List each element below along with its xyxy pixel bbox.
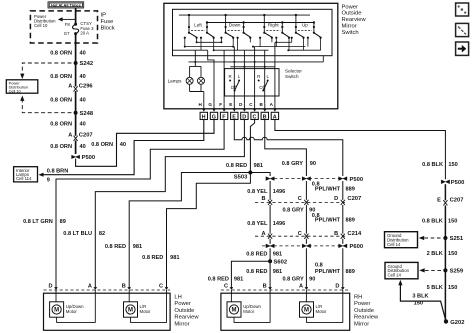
svg-text:Mirror: Mirror bbox=[174, 321, 189, 327]
svg-text:LH: LH bbox=[174, 295, 181, 301]
wire: 0.8 YEL 1496 C207 to C214 A bbox=[269, 205, 271, 234]
svg-text:C207: C207 bbox=[347, 196, 361, 202]
wire: 0.8 PPL/WHT 889 C207 to C214 B bbox=[342, 205, 344, 234]
connector P500 terminal (GRY wire) bbox=[302, 177, 310, 181]
battery feed label: Hot At All Times box bbox=[48, 2, 84, 8]
svg-text:0.8 ORN: 0.8 ORN bbox=[91, 142, 113, 148]
svg-text:981: 981 bbox=[273, 269, 282, 275]
connector P500 terminal (PPL/WHT wire) bbox=[339, 177, 347, 181]
wire: switch feed bus lower bbox=[207, 22, 314, 24]
svg-text:0.8 ORN: 0.8 ORN bbox=[50, 74, 72, 80]
viewer button 1 bbox=[456, 3, 469, 16]
connector C204 cavity F bbox=[220, 112, 227, 120]
svg-text:P500: P500 bbox=[82, 155, 96, 161]
connector C204 cavity G bbox=[210, 112, 217, 120]
svg-text:0.8 YEL: 0.8 YEL bbox=[247, 189, 268, 195]
svg-text:Cell 10: Cell 10 bbox=[34, 23, 48, 28]
svg-text:981: 981 bbox=[133, 244, 142, 250]
switch contact set: Up bbox=[291, 14, 322, 39]
connector P500 terminal (RED/YEL wire) bbox=[266, 177, 274, 181]
switch pin H bbox=[198, 102, 205, 112]
wire: switch internal to pin C bbox=[254, 47, 256, 104]
svg-text:0.8 RED: 0.8 RED bbox=[246, 269, 267, 275]
svg-text:Switch: Switch bbox=[342, 30, 359, 36]
viewer button 2 bbox=[456, 23, 469, 36]
viewer button 3 (arrow) bbox=[456, 42, 469, 55]
svg-text:C: C bbox=[159, 284, 163, 290]
wire: 0.8 ORN 40 S242 to C296 bbox=[75, 63, 77, 87]
svg-text:C: C bbox=[298, 196, 302, 202]
svg-text:889: 889 bbox=[346, 269, 355, 275]
wire: switch internal to pin B bbox=[264, 50, 266, 103]
svg-text:A: A bbox=[68, 83, 72, 89]
mirror pin B bbox=[122, 284, 131, 291]
lamp L2 (illumination) bbox=[198, 77, 205, 84]
svg-text:40: 40 bbox=[80, 122, 86, 128]
svg-text:B: B bbox=[261, 196, 265, 202]
wire: 0.8 GRY 90 switch B to RH mirror A bbox=[265, 120, 307, 177]
svg-text:F: F bbox=[219, 102, 222, 107]
connector C204 cavity C bbox=[251, 112, 258, 120]
svg-text:Switch: Switch bbox=[285, 74, 299, 79]
svg-text:Off: Off bbox=[231, 85, 238, 90]
svg-text:0.8 BLK: 0.8 BLK bbox=[422, 162, 443, 168]
svg-text:0.8 ORN: 0.8 ORN bbox=[50, 144, 72, 150]
svg-text:150: 150 bbox=[448, 162, 457, 168]
switch contact set: Left bbox=[184, 14, 215, 39]
Ground Distribution Cell 14 box (lower) bbox=[385, 262, 418, 278]
wire: switch internal distribution bus B bbox=[230, 66, 275, 68]
wire: lamp return to pin H bbox=[190, 84, 204, 103]
connector C204 cavity B bbox=[261, 112, 268, 120]
svg-text:B: B bbox=[263, 284, 267, 290]
svg-text:150: 150 bbox=[448, 251, 457, 257]
wire: switch internal to pin E bbox=[233, 47, 235, 104]
svg-text:0.8 RED: 0.8 RED bbox=[246, 252, 267, 258]
wire: switch internal to pin A bbox=[274, 42, 276, 103]
svg-text:89: 89 bbox=[60, 219, 66, 225]
wire: 0.8 BLK 150 C207 to S251 bbox=[444, 205, 446, 238]
wire: 0.8 LT BLU 82 switch D to LH mirror A bbox=[95, 120, 244, 288]
selector contacts group 2 bbox=[257, 74, 269, 92]
connector C204 cavity E bbox=[231, 112, 238, 120]
svg-text:Lamps: Lamps bbox=[168, 79, 182, 84]
svg-text:Power: Power bbox=[354, 301, 371, 307]
splice S251 bbox=[443, 236, 447, 240]
wire: switch internal to pin F bbox=[223, 50, 225, 103]
wire: 0.8 ORN 40 C207 to P500 bbox=[75, 140, 77, 154]
wire: feed from Hot At All Times into fuse bbox=[75, 8, 77, 24]
mirror pin C bbox=[159, 284, 168, 291]
wire: 0.8 ORN 40 C296 to S248 bbox=[75, 91, 77, 113]
wire: 0.8 GRY 90 P500 to C207 C bbox=[305, 181, 307, 200]
svg-text:Cell 14: Cell 14 bbox=[387, 242, 401, 247]
dashed reference link S242 to Power Distribution cell bbox=[22, 63, 71, 74]
svg-text:D: D bbox=[334, 196, 338, 202]
dashed reference link S248 to Power Distribution cell bbox=[22, 101, 71, 113]
connector C204 cavity D bbox=[241, 112, 248, 120]
svg-text:RH: RH bbox=[354, 295, 362, 301]
svg-text:G7: G7 bbox=[64, 31, 70, 36]
wire: lamp feed from mesh bbox=[190, 50, 201, 77]
svg-text:Selector: Selector bbox=[285, 68, 302, 73]
svg-text:1496: 1496 bbox=[273, 221, 285, 227]
wire: 0.8 GRY 90 C207 to C214 C bbox=[305, 205, 307, 234]
splice S248 bbox=[74, 111, 78, 115]
svg-text:Outside: Outside bbox=[174, 308, 194, 314]
svg-text:S251: S251 bbox=[450, 236, 464, 242]
connector P600 dashed row bbox=[262, 245, 347, 247]
svg-text:0.8 RED: 0.8 RED bbox=[226, 163, 247, 169]
wire: 0.8 GRY 90 P600 to RH mirror A bbox=[305, 248, 307, 287]
svg-text:1496: 1496 bbox=[273, 189, 285, 195]
connector P500 (orange wire crossing) bbox=[72, 155, 80, 158]
svg-text:Rearview: Rearview bbox=[342, 17, 367, 23]
svg-text:S602: S602 bbox=[274, 260, 288, 266]
svg-text:P600: P600 bbox=[350, 244, 364, 250]
svg-text:S242: S242 bbox=[80, 61, 94, 67]
svg-text:40: 40 bbox=[80, 144, 86, 150]
svg-text:H: H bbox=[202, 114, 206, 120]
wire: 5 BLK 150 S259 to G202 bbox=[444, 270, 447, 321]
svg-text:0.8: 0.8 bbox=[315, 262, 323, 268]
svg-text:S248: S248 bbox=[80, 111, 94, 117]
svg-text:90: 90 bbox=[309, 277, 315, 283]
svg-text:889: 889 bbox=[346, 187, 355, 193]
svg-text:40: 40 bbox=[80, 97, 86, 103]
svg-text:2 BLK: 2 BLK bbox=[427, 251, 443, 257]
svg-text:981: 981 bbox=[254, 163, 263, 169]
wire: 0.8 ORN 40 S248 to C207 bbox=[75, 113, 77, 136]
svg-text:40: 40 bbox=[80, 51, 86, 57]
switch name label bbox=[342, 4, 367, 36]
wire: S503 right branch to RH mirror common bbox=[250, 173, 270, 177]
svg-text:0.8 BRN: 0.8 BRN bbox=[47, 168, 68, 174]
switch pin A bbox=[270, 102, 277, 112]
wire: switch internal distribution bus A bbox=[189, 56, 324, 62]
fuse element (S-curve) with terminals bbox=[74, 23, 77, 26]
wire: S503 left branch to LH mirror B bbox=[129, 173, 250, 288]
svg-text:A: A bbox=[299, 284, 303, 290]
svg-text:Up: Up bbox=[302, 23, 308, 28]
wire: 0.8 PPL/WHT 889 P500 to C207 D bbox=[342, 181, 344, 200]
svg-text:C296: C296 bbox=[79, 83, 94, 89]
connector P500 (mirror harness pass-through) dashed row bbox=[274, 178, 346, 180]
svg-text:D: D bbox=[49, 284, 53, 290]
LH Power mirror box bbox=[44, 293, 171, 330]
wire: 0.8 RED 981 switch C to S503 bbox=[250, 120, 254, 173]
svg-text:0.8 ORN: 0.8 ORN bbox=[50, 122, 72, 128]
svg-text:9: 9 bbox=[47, 178, 50, 184]
mirror pin C bbox=[224, 284, 233, 291]
wire: 0.8 YEL 1496 P500 to C207 B bbox=[269, 181, 271, 200]
svg-text:Left: Left bbox=[194, 23, 202, 28]
svg-text:D: D bbox=[335, 284, 339, 290]
wire: 2 BLK 150 S251 to S259 bbox=[444, 238, 446, 270]
svg-text:C: C bbox=[298, 231, 302, 237]
svg-text:981: 981 bbox=[273, 252, 282, 258]
IP Fuse Block dashed box bbox=[30, 11, 97, 43]
svg-text:Right: Right bbox=[268, 23, 279, 28]
svg-text:0.8 BLK: 0.8 BLK bbox=[422, 219, 443, 225]
connector C204 cavity A bbox=[271, 112, 278, 120]
svg-text:R: R bbox=[229, 74, 232, 79]
wire: 0.8 RED 981 S602 branch to RH mirror C bbox=[231, 261, 270, 287]
connector C207 dashed row bbox=[255, 201, 345, 203]
switch contact set: Right bbox=[259, 14, 290, 39]
svg-text:Cell 10: Cell 10 bbox=[9, 89, 22, 94]
svg-text:0.8 ORN: 0.8 ORN bbox=[50, 97, 72, 103]
mirror name label bbox=[354, 295, 379, 328]
svg-text:M: M bbox=[304, 308, 309, 314]
connector P500 terminal (BLK wire) bbox=[441, 180, 449, 184]
wire: 0.8 RED 981 P600 to S602 bbox=[269, 248, 271, 261]
wire: 3 BLK 150 ground distribution to G202 bbox=[400, 285, 446, 322]
svg-text:E: E bbox=[232, 114, 236, 120]
svg-text:Power: Power bbox=[174, 301, 191, 307]
svg-text:P500: P500 bbox=[350, 177, 364, 183]
connector P600 terminal (RED wire) bbox=[266, 244, 274, 248]
switch pin E bbox=[229, 102, 236, 112]
svg-text:Motor: Motor bbox=[243, 309, 255, 314]
svg-text:A: A bbox=[88, 284, 92, 290]
wire: mirror internal wiring bbox=[56, 290, 167, 323]
svg-text:G202: G202 bbox=[450, 320, 464, 326]
svg-text:0.8 LT GRN: 0.8 LT GRN bbox=[23, 219, 53, 225]
svg-text:M: M bbox=[128, 308, 133, 314]
svg-text:40: 40 bbox=[80, 74, 86, 80]
mirror pin A bbox=[299, 284, 308, 291]
svg-text:R: R bbox=[257, 74, 260, 79]
svg-text:0.8 RED: 0.8 RED bbox=[142, 255, 163, 261]
wire: 0.8 BRN 9 to switch pin H bbox=[43, 120, 204, 175]
mirror pin D bbox=[49, 284, 58, 291]
switch pin C bbox=[249, 102, 256, 112]
svg-text:S259: S259 bbox=[450, 269, 464, 275]
wire: 0.8 LT GRN 89 switch F to LH mirror D bbox=[56, 120, 224, 288]
wire: 0.8 BLK 150 P500 to C207 E bbox=[444, 184, 446, 200]
svg-text:0.8 RED: 0.8 RED bbox=[208, 277, 229, 283]
svg-text:Mirror: Mirror bbox=[342, 24, 357, 30]
splice S259 bbox=[443, 268, 447, 272]
splice S503 bbox=[248, 171, 252, 175]
arrow from interior lamps reference bbox=[39, 173, 44, 177]
svg-text:Fuse: Fuse bbox=[101, 19, 114, 25]
svg-text:82: 82 bbox=[99, 231, 105, 237]
svg-text:Mirror: Mirror bbox=[354, 321, 369, 327]
up/down motor LH bbox=[50, 302, 84, 317]
wire: 0.8 RED 981 S602 to RH mirror B bbox=[269, 261, 271, 287]
svg-text:C214: C214 bbox=[347, 231, 362, 237]
splice S602 bbox=[268, 259, 272, 263]
svg-text:Motor: Motor bbox=[66, 309, 78, 314]
wire: 0.8 PPL/WHT 889 P600 to RH mirror D bbox=[342, 248, 344, 287]
svg-text:150: 150 bbox=[448, 285, 457, 291]
selector switch box bbox=[225, 69, 279, 96]
dashed reference link S259 to Ground Distribution bbox=[425, 269, 443, 271]
svg-text:D: D bbox=[242, 114, 246, 120]
wire: switch feed bus upper bbox=[179, 14, 310, 16]
svg-text:981: 981 bbox=[170, 255, 179, 261]
svg-text:M: M bbox=[232, 308, 237, 314]
mirror connector dashed row bbox=[44, 289, 171, 291]
svg-text:A: A bbox=[261, 231, 265, 237]
svg-text:Motor: Motor bbox=[140, 309, 152, 314]
svg-text:PPL/WHT: PPL/WHT bbox=[315, 187, 341, 193]
ground G202 bbox=[444, 319, 448, 323]
wire: switch internal to pin G bbox=[208, 50, 214, 103]
mirror direction contact assembly inner box bbox=[173, 9, 333, 55]
svg-text:Cell 14: Cell 14 bbox=[388, 273, 402, 278]
up/down motor RH bbox=[227, 302, 261, 317]
svg-text:Motor: Motor bbox=[316, 309, 328, 314]
svg-text:F8: F8 bbox=[65, 22, 71, 27]
svg-text:IP: IP bbox=[101, 13, 107, 19]
svg-text:P500: P500 bbox=[451, 180, 465, 186]
connector P600 terminal (PPL/WHT wire) bbox=[339, 244, 347, 248]
svg-text:B: B bbox=[263, 114, 267, 120]
svg-text:Outside: Outside bbox=[354, 308, 374, 314]
wire: 0.8 BLK 150 switch A to right ground column bbox=[275, 120, 446, 180]
svg-text:A: A bbox=[273, 114, 277, 120]
switch pin G bbox=[208, 102, 215, 112]
svg-text:C: C bbox=[224, 284, 228, 290]
splice S242 bbox=[74, 61, 78, 65]
svg-text:A: A bbox=[68, 133, 72, 139]
svg-text:Rearview: Rearview bbox=[174, 315, 199, 321]
switch pin F bbox=[219, 102, 226, 112]
connector P600 terminal (GRY wire) bbox=[302, 244, 310, 248]
svg-text:0.8 RED: 0.8 RED bbox=[105, 244, 126, 250]
wire: S503 lower branch to LH mirror C bbox=[167, 173, 251, 288]
left/right motor LH bbox=[124, 302, 152, 317]
arrow to Power Distribution reference bbox=[62, 18, 76, 20]
svg-text:Hot At All Times: Hot At All Times bbox=[51, 3, 81, 8]
svg-text:20 A: 20 A bbox=[80, 31, 89, 36]
Ground Distribution Cell 14 box (upper) bbox=[385, 232, 418, 248]
svg-text:0.8 YEL: 0.8 YEL bbox=[247, 221, 268, 227]
switch contact set: Down bbox=[220, 14, 251, 39]
Power Distribution Cell 10 box (left) bbox=[6, 80, 38, 93]
op: Power Outside Rearview Mirror Switch outer box bbox=[164, 3, 338, 109]
svg-text:0.8 LT BLU: 0.8 LT BLU bbox=[63, 231, 92, 237]
mirror connector dashed row bbox=[221, 289, 350, 291]
svg-text:B: B bbox=[122, 284, 126, 290]
svg-text:Block: Block bbox=[101, 26, 115, 32]
svg-text:0.8 GRY: 0.8 GRY bbox=[282, 208, 304, 214]
svg-text:C: C bbox=[252, 114, 256, 120]
wire: switch internal to pin D bbox=[243, 50, 245, 103]
mirror pin D bbox=[335, 284, 344, 291]
svg-text:889: 889 bbox=[346, 218, 355, 224]
svg-text:Off: Off bbox=[259, 85, 266, 90]
switch pin D bbox=[239, 102, 246, 112]
svg-text:3 BLK: 3 BLK bbox=[412, 293, 428, 299]
svg-text:40: 40 bbox=[120, 142, 126, 148]
svg-text:5 BLK: 5 BLK bbox=[427, 285, 443, 291]
svg-text:0.8 ORN: 0.8 ORN bbox=[50, 51, 72, 57]
svg-text:Power: Power bbox=[342, 4, 359, 10]
wire: C214 to P600 (three wires) bbox=[270, 239, 343, 244]
mirror pin A bbox=[88, 284, 97, 291]
connector C204 cavity H bbox=[200, 112, 207, 120]
svg-text:M: M bbox=[54, 308, 59, 314]
wire: switch output mesh bbox=[173, 38, 321, 52]
svg-text:Outside: Outside bbox=[342, 11, 362, 17]
svg-text:PPL/WHT: PPL/WHT bbox=[315, 218, 341, 224]
svg-text:E: E bbox=[229, 102, 232, 107]
svg-text:G: G bbox=[212, 114, 216, 120]
svg-text:C207: C207 bbox=[79, 133, 93, 139]
selector contacts group 1 bbox=[229, 74, 241, 92]
connector C214 dashed row bbox=[255, 235, 345, 237]
svg-text:Down: Down bbox=[229, 23, 241, 28]
dashed reference link S251 to Ground Distribution bbox=[425, 237, 443, 239]
mirror name label bbox=[174, 295, 199, 328]
svg-text:G: G bbox=[208, 102, 212, 107]
svg-text:150: 150 bbox=[448, 219, 457, 225]
svg-text:150: 150 bbox=[414, 301, 423, 307]
wire: 0.8 PPL/WHT 889 switch E to RH mirror D (with crossover hops) bbox=[234, 120, 342, 177]
lamp L1 (illumination) bbox=[186, 77, 193, 84]
svg-text:Rearview: Rearview bbox=[354, 315, 379, 321]
svg-text:Cell 114: Cell 114 bbox=[16, 176, 32, 181]
svg-text:0.8 GRY: 0.8 GRY bbox=[282, 161, 304, 167]
wire: 0.8 ORN 40 P500 elbow up to switch pin G bbox=[76, 120, 214, 167]
svg-text:0.8 GRY: 0.8 GRY bbox=[282, 277, 304, 283]
wire: 0.8 ORN 40 fuse to S242 bbox=[75, 34, 77, 63]
svg-text:S503: S503 bbox=[234, 174, 248, 180]
wire: mirror internal wiring bbox=[231, 290, 342, 323]
RH Power mirror box bbox=[221, 293, 350, 330]
svg-text:E: E bbox=[437, 198, 441, 204]
svg-text:C207: C207 bbox=[450, 198, 464, 204]
Interior Lamps Cell 114 reference box bbox=[14, 167, 38, 182]
left/right motor RH bbox=[300, 302, 328, 317]
svg-text:B: B bbox=[334, 231, 338, 237]
svg-text:90: 90 bbox=[310, 161, 316, 167]
svg-text:981: 981 bbox=[234, 277, 243, 283]
mirror pin B bbox=[263, 284, 272, 291]
switch pin B bbox=[259, 102, 266, 112]
svg-text:PPL/WHT: PPL/WHT bbox=[315, 269, 341, 275]
